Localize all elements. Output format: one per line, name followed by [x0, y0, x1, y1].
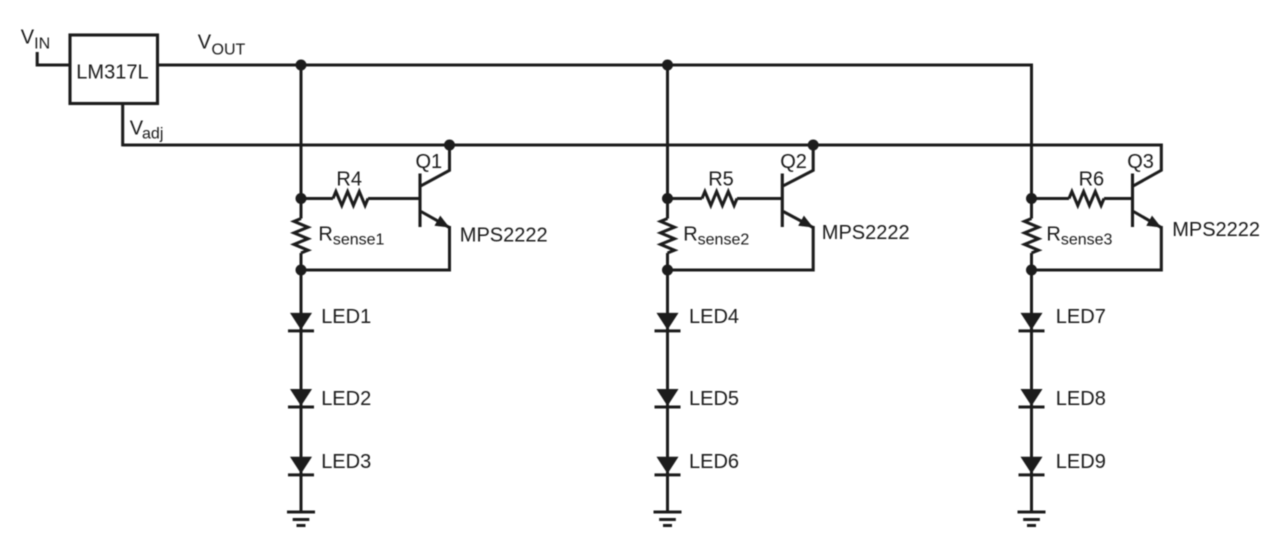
wire R6 right to Q3 base	[1104, 197, 1133, 200]
svg-text:LED2: LED2	[321, 388, 371, 410]
resistor R4 zigzag	[333, 192, 368, 206]
resistor Rsense3 zigzag	[1025, 219, 1039, 254]
wire Q1 emitter return	[301, 226, 450, 270]
wire R4 right to Q1 base	[368, 197, 420, 200]
svg-text:R5: R5	[708, 168, 734, 190]
LED8	[1019, 389, 1045, 409]
wire string3 vertical lower	[1030, 253, 1033, 512]
svg-text:LED9: LED9	[1056, 451, 1106, 473]
transistor Q1 base bar	[418, 174, 421, 228]
LED1	[288, 313, 314, 333]
svg-text:LM317L: LM317L	[76, 62, 148, 84]
ground string3	[1018, 512, 1046, 526]
transistor Q1 emitter arrow	[435, 216, 450, 228]
svg-text:R4: R4	[336, 168, 362, 190]
svg-text:MPS2222: MPS2222	[1172, 219, 1260, 241]
svg-text:Q2: Q2	[780, 151, 807, 173]
junction dot Rsense3 top	[1026, 193, 1037, 204]
junction dot Rsense2 bottom	[662, 265, 673, 276]
svg-text:MPS2222: MPS2222	[460, 224, 548, 246]
wire R5 right to Q2 base	[737, 197, 782, 200]
ground string1	[287, 512, 315, 526]
LED5	[655, 389, 681, 409]
junction dot Rsense2 top	[662, 193, 673, 204]
junction dot Rsense3 bottom	[1026, 265, 1037, 276]
transistor Q2 emitter arrow	[798, 216, 813, 228]
svg-text:LED7: LED7	[1056, 306, 1106, 328]
resistor Rsense1 zigzag	[294, 219, 308, 254]
transistor Q3 emitter arrow	[1146, 216, 1161, 228]
wire string3 vertical upper	[1030, 64, 1033, 219]
transistor Q2 base bar	[781, 174, 784, 228]
junction dot Vadj/Q1 collector	[444, 140, 455, 151]
wire R5 left	[668, 197, 703, 200]
wire string2 vertical upper	[666, 65, 669, 219]
svg-text:LED1: LED1	[321, 306, 371, 328]
wire string1 vertical lower	[300, 253, 303, 512]
wire VOUT rail	[158, 64, 1033, 67]
LED2	[288, 389, 314, 409]
wire Q2 emitter return	[668, 226, 814, 270]
transistor Q1 collector	[421, 144, 450, 186]
LED3	[288, 457, 314, 477]
wire Q3 emitter return	[1032, 226, 1162, 270]
resistor R6 zigzag	[1069, 192, 1104, 206]
svg-text:LED5: LED5	[689, 388, 739, 410]
wire Vadj pin	[121, 104, 124, 147]
regulator U1 LM317L box	[70, 35, 158, 104]
transistor Q3 collector	[1134, 144, 1162, 186]
LED6	[655, 457, 681, 477]
LED7	[1019, 313, 1045, 333]
LED9	[1019, 457, 1045, 477]
transistor Q3 emitter	[1134, 212, 1162, 228]
wire VIN input	[37, 52, 70, 65]
wire R6 left	[1032, 197, 1070, 200]
svg-text:Q3: Q3	[1127, 151, 1154, 173]
transistor Q1 emitter	[421, 212, 450, 228]
transistor Q2 collector	[783, 144, 813, 186]
ground string2	[654, 512, 682, 526]
svg-text:LED3: LED3	[321, 451, 371, 473]
junction dot Rsense1 top	[296, 193, 307, 204]
svg-text:R6: R6	[1079, 169, 1105, 191]
svg-text:LED4: LED4	[689, 306, 739, 328]
junction dot Rsense1 bottom	[296, 265, 307, 276]
resistor R5 zigzag	[702, 192, 737, 206]
wire string1 vertical upper	[300, 65, 303, 219]
transistor Q2 emitter	[783, 212, 813, 228]
transistor Q3 base bar	[1131, 174, 1134, 228]
junction dot VOUT/string1	[296, 60, 307, 71]
svg-text:LED6: LED6	[689, 451, 739, 473]
junction dot VOUT/string2	[662, 60, 673, 71]
wire string2 vertical lower	[666, 253, 669, 512]
junction dot Vadj/Q2 collector	[808, 140, 819, 151]
svg-text:Q1: Q1	[416, 151, 443, 173]
svg-text:MPS2222: MPS2222	[822, 222, 910, 244]
wire Vadj rail	[123, 144, 1163, 147]
resistor Rsense2 zigzag	[661, 219, 675, 254]
wire R4 left	[301, 197, 333, 200]
LED4	[655, 313, 681, 333]
svg-text:LED8: LED8	[1056, 388, 1106, 410]
